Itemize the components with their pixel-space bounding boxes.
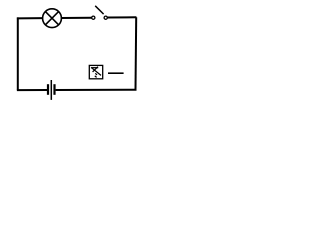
wire bottom right segment (56, 89, 137, 91)
battery B1 plate positive middle (50, 80, 52, 100)
battery B1 plate negative left (47, 84, 49, 95)
switch S1 terminal circle right (104, 16, 107, 19)
label caption: character tu (figure) outer box (89, 65, 102, 78)
tu interior top horizontal stroke (91, 67, 98, 69)
tu interior dot 2 (95, 76, 97, 78)
switch S1 terminal circle left (92, 16, 95, 19)
tu interior left-falling diagonal (93, 67, 98, 72)
lamp L1 (43, 9, 62, 28)
wire top middle segment (61, 17, 92, 19)
wire right side (135, 17, 138, 90)
tu interior dot 1 (95, 73, 97, 75)
label caption: character yi (one) stroke (108, 72, 124, 74)
wire top right segment (108, 16, 137, 18)
tu interior long right-falling diagonal (92, 68, 101, 76)
wire left side (17, 17, 19, 90)
battery B1 plate negative right (53, 84, 55, 95)
wire bottom left segment (17, 89, 47, 91)
switch S1 lever (open) (95, 6, 103, 14)
wire top left segment (17, 17, 43, 19)
